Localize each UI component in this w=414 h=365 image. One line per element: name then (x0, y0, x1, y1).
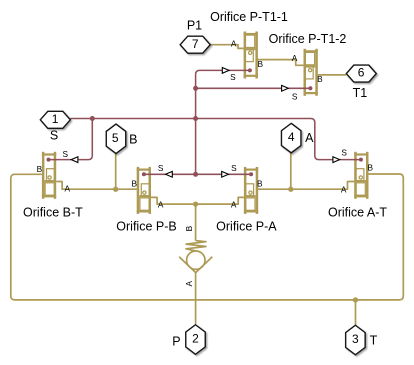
svg-text:B: B (317, 74, 323, 84)
svg-text:B: B (258, 59, 264, 69)
svg-text:A: A (231, 38, 237, 48)
svg-text:4: 4 (288, 130, 295, 144)
svg-text:6: 6 (358, 66, 365, 80)
svg-text:Orifice P-T1-2: Orifice P-T1-2 (269, 32, 347, 46)
svg-text:S: S (292, 92, 298, 102)
svg-text:5: 5 (112, 131, 119, 145)
svg-text:A: A (305, 131, 314, 145)
svg-text:P1: P1 (187, 18, 202, 32)
svg-text:T: T (370, 334, 378, 348)
svg-text:S: S (50, 129, 58, 143)
svg-text:B: B (368, 163, 374, 173)
svg-text:B: B (257, 179, 263, 189)
svg-text:B: B (184, 225, 194, 231)
svg-text:S: S (63, 149, 69, 159)
svg-text:Orifice B-T: Orifice B-T (23, 206, 83, 220)
svg-text:Orifice A-T: Orifice A-T (328, 206, 387, 220)
svg-text:B: B (37, 164, 43, 174)
svg-text:Orifice P-A: Orifice P-A (216, 219, 277, 233)
svg-text:P: P (172, 334, 180, 348)
svg-text:S: S (341, 147, 347, 157)
svg-text:A: A (341, 185, 347, 195)
svg-text:A: A (158, 200, 164, 210)
svg-text:A: A (65, 183, 71, 193)
svg-text:B: B (132, 179, 138, 189)
svg-text:T1: T1 (353, 86, 368, 100)
svg-text:7: 7 (192, 37, 199, 51)
svg-text:B: B (129, 132, 137, 146)
svg-text:3: 3 (352, 332, 359, 346)
svg-text:A: A (184, 280, 194, 286)
svg-text:Orifice P-B: Orifice P-B (116, 219, 176, 233)
svg-text:Orifice P-T1-1: Orifice P-T1-1 (210, 10, 288, 24)
svg-text:A: A (231, 200, 237, 210)
svg-text:S: S (231, 163, 237, 173)
svg-text:S: S (230, 72, 236, 82)
svg-text:A: A (292, 53, 298, 63)
svg-text:S: S (158, 163, 164, 173)
svg-text:1: 1 (52, 112, 59, 126)
svg-text:2: 2 (192, 332, 199, 346)
